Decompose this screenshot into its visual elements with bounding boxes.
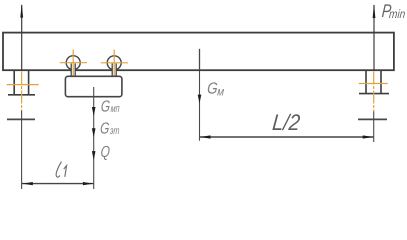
svg-text:L/2: L/2 [271,110,301,135]
svg-text:min: min [389,8,406,21]
svg-text:Q: Q [100,142,111,160]
svg-text:G: G [100,97,111,115]
svg-text:G: G [100,119,111,137]
svg-text:мп: мп [110,103,120,115]
svg-text:эт: эт [110,125,121,137]
